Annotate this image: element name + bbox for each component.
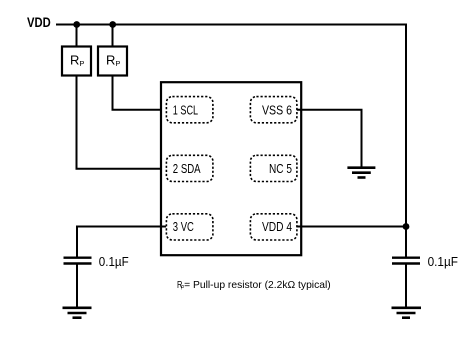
svg-text:NC 5: NC 5 — [269, 162, 292, 176]
svg-text:0.1µF: 0.1µF — [99, 254, 129, 269]
wire RP2 to SCL pin — [113, 76, 167, 110]
wire VSS to ground — [297, 110, 362, 167]
IC U1 body — [161, 82, 301, 255]
junction dot VDD4 to right rail — [403, 223, 410, 230]
pin NC 5 — [250, 155, 297, 181]
svg-text:1 SCL: 1 SCL — [173, 103, 198, 117]
wire VDD to RP1 — [76, 25, 78, 47]
resistor RP1 — [62, 47, 91, 76]
svg-text:P: P — [79, 59, 84, 68]
pin VDD 4 — [250, 214, 297, 240]
junction dot at RP1 top — [73, 21, 80, 28]
svg-text:R: R — [106, 53, 115, 68]
svg-text:VDD: VDD — [27, 14, 51, 30]
pin 2 SDA — [166, 155, 213, 181]
capacitor C2 (right 0.1uF) — [392, 258, 420, 264]
wire VDD rail top horizontal — [56, 24, 407, 26]
svg-text:R: R — [70, 53, 79, 68]
wire VDD to RP2 — [112, 25, 114, 47]
note RP definition text — [177, 279, 331, 291]
pin 1 SCL — [166, 97, 213, 123]
svg-text:VDD 4: VDD 4 — [262, 220, 292, 234]
wire VC to left capacitor — [77, 227, 166, 258]
svg-text:0.1µF: 0.1µF — [428, 254, 458, 269]
wire RP1 to SDA pin — [77, 76, 167, 169]
wire VDD4 to right rail — [297, 226, 406, 228]
ground under C1 — [63, 308, 92, 318]
wire C2 to ground — [405, 264, 407, 307]
resistor RP2 — [98, 47, 127, 76]
wire VDD rail right vertical — [405, 24, 407, 258]
svg-text:= Pull-up resistor (2.2kΩ typi: = Pull-up resistor (2.2kΩ typical) — [184, 279, 331, 291]
junction dot at RP2 top — [109, 21, 116, 28]
svg-text:VSS 6: VSS 6 — [262, 103, 292, 117]
wire C1 to ground — [76, 264, 78, 307]
capacitor C1 (left 0.1uF) — [64, 258, 92, 264]
pin 3 VC — [166, 214, 213, 240]
svg-text:2 SDA: 2 SDA — [173, 162, 201, 176]
ground under C2 — [392, 308, 422, 318]
svg-text:P: P — [115, 59, 120, 68]
svg-text:3 VC: 3 VC — [173, 220, 194, 234]
pin VSS 6 — [250, 97, 297, 123]
ground under VSS — [347, 168, 375, 178]
